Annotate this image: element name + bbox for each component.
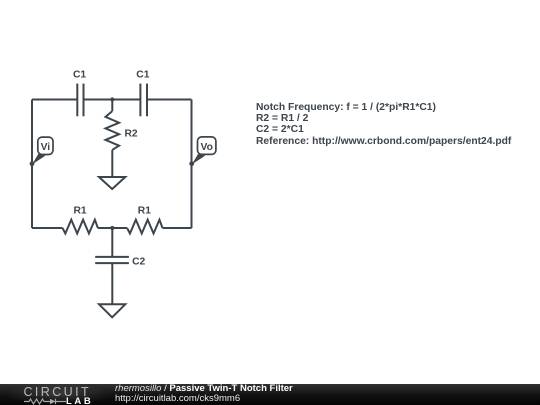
svg-text:C1: C1 <box>136 70 149 81</box>
footer bar <box>0 384 540 405</box>
annotation text block <box>256 102 511 147</box>
svg-text:R2: R2 <box>125 128 138 139</box>
node Vi flag <box>30 137 53 166</box>
node junction top <box>110 97 114 101</box>
wire C2 top lead <box>111 228 113 257</box>
wire between C1 caps <box>84 99 141 101</box>
capacitor C1 (right) <box>140 84 147 117</box>
wire R2 top lead <box>111 100 113 112</box>
svg-text:C1: C1 <box>73 70 86 81</box>
svg-text:Vi: Vi <box>41 142 51 153</box>
svg-text:C2: C2 <box>132 257 145 268</box>
wire C2 bottom lead <box>111 263 113 304</box>
footer url line <box>115 394 240 404</box>
wire bottom-right horizontal <box>163 227 192 229</box>
resistor R1 (right) <box>127 220 162 234</box>
CircuitLab logo LAB <box>66 397 93 405</box>
ground (under C2) <box>99 304 125 317</box>
footer credit line <box>115 384 293 394</box>
wire right vertical <box>191 100 193 229</box>
svg-text:R1: R1 <box>138 206 151 217</box>
svg-text:Vo: Vo <box>200 142 212 153</box>
node Vo flag <box>189 137 216 166</box>
wire R2 bottom lead <box>111 150 113 177</box>
capacitor C1 (left) <box>77 84 83 117</box>
resistor R2 <box>106 111 120 150</box>
node junction bottom <box>110 226 114 230</box>
CircuitLab logo resistor-diode icon <box>24 398 66 405</box>
wire bottom-left horizontal <box>32 227 63 229</box>
wire left vertical <box>31 100 33 229</box>
wire top-left horizontal <box>32 99 77 101</box>
wire top-right horizontal <box>147 99 192 101</box>
wire between R1 resistors <box>98 227 127 229</box>
resistor R1 (left) <box>63 220 98 234</box>
ground (under R2) <box>99 177 125 189</box>
capacitor C2 <box>95 257 129 263</box>
CircuitLab logo wordmark <box>24 386 92 398</box>
svg-text:R1: R1 <box>74 206 87 217</box>
